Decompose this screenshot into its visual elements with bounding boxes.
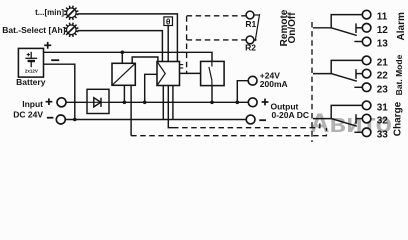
node battery bus to U1 xyxy=(121,51,125,55)
svg-text:Battery: Battery xyxy=(16,77,46,87)
svg-text:Alarm: Alarm xyxy=(396,12,407,40)
terminal 13 xyxy=(362,37,371,46)
svg-text:23: 23 xyxy=(377,84,389,95)
switch K1 xyxy=(201,61,225,85)
dashed wire to R1 xyxy=(187,15,247,17)
svg-text:33: 33 xyxy=(377,129,389,140)
remote switch stub R2 xyxy=(254,39,257,41)
node battery minus junction xyxy=(73,118,77,122)
battery minus sign xyxy=(51,59,59,61)
svg-text:R2: R2 xyxy=(245,43,256,53)
wire U2 control down xyxy=(168,86,173,128)
watermark xyxy=(310,108,392,138)
input minus sign xyxy=(47,117,54,119)
svg-text:0-20A DC: 0-20A DC xyxy=(272,110,309,120)
terminal R2 xyxy=(246,36,254,44)
wire U2 to K1 xyxy=(180,72,201,74)
svg-text:Charge: Charge xyxy=(393,101,404,136)
terminal 31 xyxy=(362,101,371,110)
svg-text:DC 24V: DC 24V xyxy=(13,110,43,120)
wire input plus to diode xyxy=(66,101,87,103)
remote switch blade xyxy=(255,14,259,41)
terminal output minus xyxy=(246,115,255,124)
svg-text:31: 31 xyxy=(377,103,389,114)
terminal 21 xyxy=(362,56,371,65)
terminal output plus xyxy=(248,98,257,107)
wire U2 to minus rail left xyxy=(162,86,164,120)
terminal 22 xyxy=(362,69,371,78)
node K1 plus rail xyxy=(210,101,214,105)
relay contact group bat mode xyxy=(313,60,362,87)
svg-text:θ: θ xyxy=(166,17,171,27)
converter U1 xyxy=(112,63,135,85)
relay contact group charge xyxy=(313,105,362,132)
output plus sign xyxy=(262,99,269,106)
svg-text:Bat. Mode: Bat. Mode xyxy=(394,54,404,95)
potentiometer P2 Bat.-Select [Ah] xyxy=(64,23,78,37)
wire battery plus bus to K1 xyxy=(44,52,213,61)
diode V1 box xyxy=(87,89,109,113)
svg-text:13: 13 xyxy=(377,39,389,50)
svg-text:11: 11 xyxy=(377,12,388,23)
svg-text:R1: R1 xyxy=(245,19,256,29)
U2 right edge ticks xyxy=(180,65,184,68)
node U1 plus rail xyxy=(123,101,127,105)
wire minus rail xyxy=(65,119,246,121)
svg-text:Bat.-Select [Ah]: Bat.-Select [Ah] xyxy=(2,25,65,35)
dashed boundary remote vertical xyxy=(186,16,188,73)
remote switch stub R1 xyxy=(254,14,259,16)
svg-text:21: 21 xyxy=(377,58,389,69)
node U2 feed xyxy=(143,101,147,105)
wire U1 control down xyxy=(130,85,132,135)
wire P1 to U2 xyxy=(78,14,178,62)
node aux tap xyxy=(236,101,240,105)
terminal R1 xyxy=(246,11,254,19)
svg-text:12: 12 xyxy=(377,25,389,36)
wire B1 to U2 xyxy=(167,26,169,62)
terminal 11 xyxy=(362,10,371,19)
potentiometer P1 t...[min] xyxy=(64,6,78,20)
terminal input minus xyxy=(56,115,65,124)
svg-text:t...[min]: t...[min] xyxy=(35,8,64,17)
dashed wire to R2 xyxy=(187,39,247,41)
battery G1 xyxy=(18,48,43,77)
battery plus sign xyxy=(44,42,51,49)
svg-text:32: 32 xyxy=(377,116,389,127)
controller U2 xyxy=(157,62,180,86)
wire U2 to minus rail right xyxy=(172,86,174,120)
wire bus down to U1 xyxy=(121,52,123,63)
wire plus rail up to U2 xyxy=(145,74,157,102)
label Remote On/Off xyxy=(279,9,298,46)
wire 24V aux tap xyxy=(237,81,248,103)
relay contact group alarm xyxy=(313,15,362,42)
input plus sign xyxy=(46,98,53,105)
wire bridge U1 to U2 xyxy=(132,57,158,63)
terminal input plus xyxy=(57,98,66,107)
temperature sensor B1 xyxy=(164,17,173,26)
battery cell symbol xyxy=(25,52,37,67)
terminal 33 xyxy=(362,128,371,137)
wire battery minus xyxy=(44,64,75,119)
wire P2 to U2 xyxy=(78,31,163,62)
terminal 12 xyxy=(362,24,371,33)
output minus sign xyxy=(259,119,266,121)
dashed module right boundary xyxy=(311,22,313,142)
svg-text:22: 22 xyxy=(377,71,389,82)
svg-text:On/Off: On/Off xyxy=(287,12,298,44)
wire plus rail xyxy=(109,101,248,103)
terminal 24V aux xyxy=(248,76,257,85)
svg-text:200mA: 200mA xyxy=(260,79,288,89)
svg-text:2x12V: 2x12V xyxy=(25,69,38,74)
wire U1 to plus rail xyxy=(123,85,125,102)
svg-text:Input: Input xyxy=(22,99,43,109)
terminal 23 xyxy=(362,83,371,92)
dashed control line upper xyxy=(173,121,320,128)
wire K1 to plus rail xyxy=(211,86,213,103)
dashed control line lower xyxy=(131,128,326,136)
terminal 32 xyxy=(362,114,371,123)
